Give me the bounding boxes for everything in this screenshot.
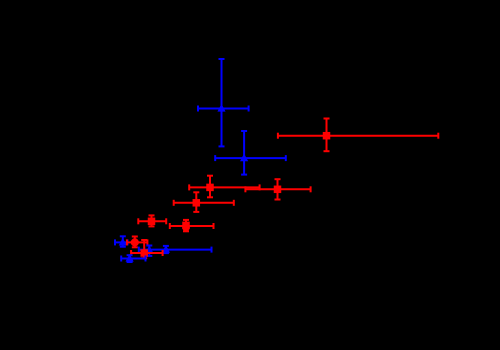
red circle data point I with error bars	[127, 237, 147, 248]
red square data point F with error bars	[174, 192, 234, 212]
blue triangle data point N with long x error bar	[139, 245, 212, 253]
red square data point D with error bars	[189, 176, 259, 198]
red circle data point H with error bars	[170, 220, 214, 231]
blue triangle data point B with error bars	[215, 131, 286, 175]
blue triangle data point M with y error bar	[145, 245, 153, 256]
red square data point G with error bars	[138, 215, 166, 226]
blue triangle data point L with error bars	[121, 254, 145, 262]
blue triangle data point A with error bars	[198, 59, 249, 146]
blue triangle data point J with error bars	[115, 236, 128, 246]
red square data point E with error bars	[245, 179, 310, 199]
red square data point K with error bars	[131, 240, 163, 258]
red square data point C with error bars	[278, 119, 438, 152]
